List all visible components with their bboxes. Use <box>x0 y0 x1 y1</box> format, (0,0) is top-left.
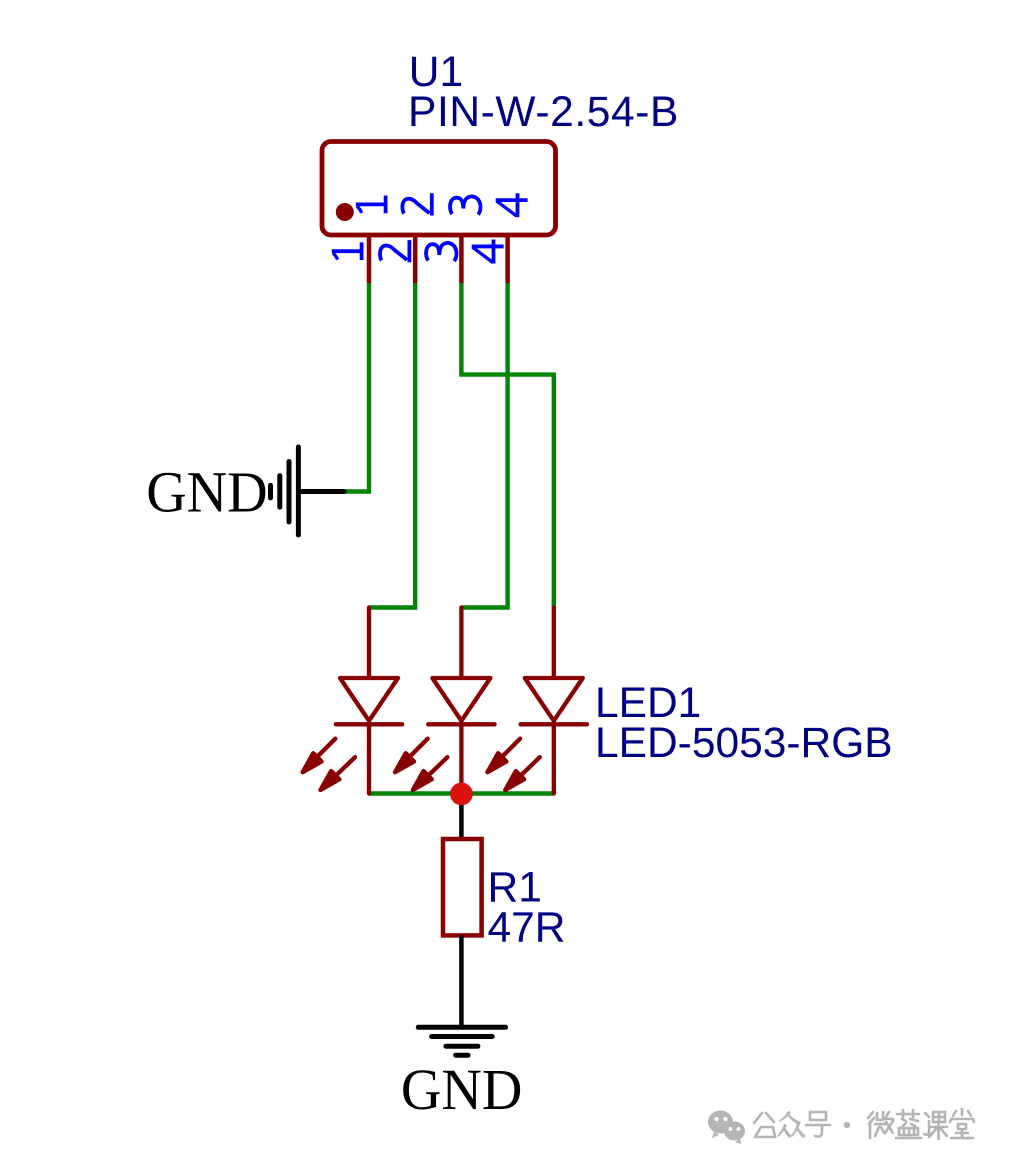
connector body U1 <box>322 142 556 236</box>
bar 1 (long) <box>296 447 301 535</box>
pin number 4 (inner) <box>496 193 528 217</box>
svg-text:GND: GND <box>401 1057 523 1122</box>
蓝 <box>896 1110 921 1138</box>
· <box>844 1122 850 1128</box>
bar 1 (long) <box>418 1025 505 1030</box>
LED1 <box>303 608 587 794</box>
pin number 4 (outer) <box>472 240 504 264</box>
LED red element triangle <box>340 678 398 721</box>
LED blue element triangle <box>432 678 490 721</box>
LED green element cathode lead <box>552 724 556 793</box>
svg-text:PIN-W-2.54-B: PIN-W-2.54-B <box>408 89 679 136</box>
pin-1 marker dot <box>336 203 354 221</box>
svg-text:47R: 47R <box>488 904 566 951</box>
bar 2 <box>287 462 292 523</box>
wire pin1 to GND flag <box>344 283 369 492</box>
bar 2 <box>432 1034 493 1039</box>
pin number 1 (inner) <box>356 196 386 214</box>
LED blue arrow 1 <box>403 739 427 763</box>
svg-text:LED-5053-RGB: LED-5053-RGB <box>595 720 893 767</box>
stem <box>298 489 344 494</box>
wire R1 to ground <box>459 935 464 1027</box>
LED red element anode lead <box>367 608 371 679</box>
LED blue element cathode lead <box>459 724 463 793</box>
LED blue element cathode bar <box>428 722 494 726</box>
LED green arrow 1 <box>496 739 520 763</box>
pin number 1 (outer) <box>332 242 362 260</box>
connector U1 PIN-W-2.54-B <box>322 49 679 283</box>
wire junction to R1 <box>459 794 464 840</box>
LED green element cathode bar <box>521 722 587 726</box>
junction node <box>450 783 473 806</box>
bar 3 <box>446 1044 478 1049</box>
众 <box>777 1111 806 1138</box>
wire LED cathodes common <box>369 791 554 795</box>
wire pin4 to LED1 green anode <box>461 283 507 608</box>
LED blue element anode lead <box>459 608 463 679</box>
LED green element anode lead <box>552 608 556 679</box>
resistor R1 <box>443 839 482 935</box>
pin 4 stub <box>505 235 510 283</box>
pin number 3 (outer) <box>426 243 456 261</box>
堂 <box>950 1109 974 1138</box>
pin 2 stub <box>413 235 418 283</box>
LED green arrow 2 <box>515 757 540 781</box>
bar 4 (short) <box>268 485 273 498</box>
ground symbol GND (bottom) <box>401 1027 523 1122</box>
LED red element cathode bar <box>336 722 402 726</box>
课 <box>924 1112 947 1139</box>
svg-text:GND: GND <box>146 459 268 524</box>
wire pin2 to LED1 red anode <box>369 283 415 608</box>
pin number 3 (inner) <box>450 196 480 214</box>
pin 1 stub <box>367 235 372 283</box>
pin number 2 (inner) <box>402 193 431 215</box>
LED red element cathode lead <box>367 724 371 793</box>
pin 3 stub <box>459 235 464 283</box>
pin number 2 (outer) <box>380 240 409 262</box>
微 <box>868 1112 893 1138</box>
LED red arrow 2 <box>330 757 355 781</box>
bar 4 (short) <box>456 1053 468 1058</box>
watermark wechat icon <box>708 1111 745 1145</box>
号 <box>806 1112 830 1137</box>
LED red arrow 1 <box>311 739 335 763</box>
bar 3 <box>277 476 282 508</box>
watermark text <box>754 1109 974 1139</box>
wire pin3 to LED1 blue anode <box>461 283 553 608</box>
LED green element triangle <box>525 678 583 721</box>
ground net flag GND (left) <box>146 447 344 535</box>
公 <box>754 1113 775 1137</box>
LED blue arrow 2 <box>422 757 447 781</box>
